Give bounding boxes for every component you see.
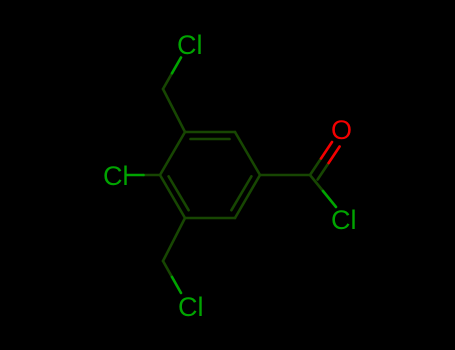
bond V6 to CH2 (bottom chloromethyl) [163,218,185,261]
C=O double bond line 2, oxygen half [329,147,340,164]
bond carbonyl C to acyl Cl, carbon half [310,175,323,191]
bond CH2-Cl bottom, carbon half [163,261,172,277]
bond V2 to CH2 (top chloromethyl) [163,89,185,132]
bond V1 to Cl (aryl chloride), carbon half [144,174,161,177]
C=O double bond line 1, carbon half [310,159,321,176]
svg-text:Cl: Cl [103,161,129,191]
benzene ring bond V3-V4 [235,132,260,175]
bond CH2-Cl top, chlorine half [172,58,181,74]
benzene ring bond V6-V1 [160,175,185,218]
svg-text:Cl: Cl [178,292,204,322]
benzene ring inner double line V4-V5 [231,176,251,210]
benzene ring bond V4-V5 [235,175,260,218]
benzene ring inner double line V2-V3 [191,138,230,141]
benzene ring bond V5-V6 [185,217,235,220]
benzene ring bond V2-V3 [185,131,235,134]
benzene ring inner double line V6-V1 [169,176,189,210]
svg-text:Cl: Cl [177,30,203,60]
bond carbonyl C to acyl Cl, chlorine half [323,191,336,207]
bond V4 to carbonyl carbon [260,174,310,177]
bond V1 to Cl (aryl chloride), chlorine half [127,174,144,177]
C=O double bond line 2, carbon half [318,163,329,180]
bond CH2-Cl top, carbon half [163,73,172,89]
C=O double bond line 1, oxygen half [321,142,332,159]
bond CH2-Cl bottom, chlorine half [172,277,181,293]
benzene ring bond V1-V2 [160,132,185,175]
svg-text:O: O [331,115,352,145]
svg-text:Cl: Cl [331,205,357,235]
